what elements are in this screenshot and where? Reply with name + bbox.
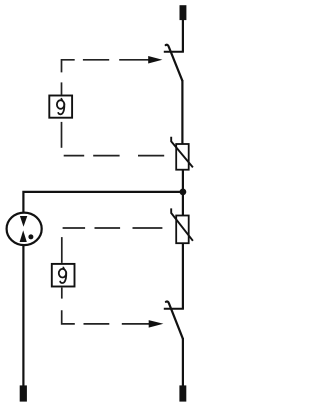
- dash: upper run 1: [63, 227, 86, 229]
- GDT gas-filled dot: [28, 234, 33, 239]
- main horizontal wire to left branch: [23, 192, 183, 213]
- switch S1 moving blade with hooked tip: [166, 45, 183, 81]
- wire: RV1 to junction node: [182, 170, 184, 216]
- terminal X2 (bottom right): [179, 385, 186, 401]
- gas discharge tube F1 envelope: [7, 213, 42, 246]
- switch S2 fixed contact arm: [164, 308, 184, 310]
- wire: GDT to terminal X3: [22, 245, 24, 386]
- dash: toward S2: [84, 323, 110, 325]
- GDT electrode lower (triangle up): [20, 230, 27, 242]
- varistor RV2 diagonal with tick: [171, 208, 193, 240]
- wire: RV2 to switch S2: [182, 243, 184, 309]
- dash: joining S1 arrow: [119, 59, 148, 61]
- dash: lower run 3 to RV1: [138, 155, 164, 157]
- dash: B2 top: [61, 237, 63, 263]
- actuator arrowhead S1: [148, 56, 162, 64]
- dash: B2 bottom: [61, 288, 63, 299]
- varistor RV2 body: [176, 216, 189, 244]
- dash: lower run 1: [64, 155, 84, 157]
- theta glyph B1: [57, 99, 64, 115]
- junction node dot: [180, 189, 187, 196]
- temperature monitor box B2: [52, 264, 75, 287]
- wire: S1 blade to varistor RV1: [181, 80, 183, 144]
- dash: corner bottom-left (bent): [62, 310, 75, 324]
- varistor RV1 diagonal with tick: [171, 137, 193, 168]
- dash: lower run 2: [93, 155, 119, 157]
- dash: joining S2 arrow: [122, 323, 149, 325]
- dashed control link B2 to S2: [62, 288, 149, 324]
- terminal X3 (bottom left): [20, 385, 27, 401]
- wire: X1 down to switch S1: [182, 20, 184, 52]
- wire: S2 blade to terminal X2: [182, 338, 184, 386]
- theta glyph B2: [59, 267, 66, 283]
- dash: corner top-left (bent): [62, 60, 75, 73]
- dash: B1 bottom: [61, 122, 63, 148]
- dashed control link B2 to RV2: [62, 228, 163, 263]
- dash: upper run 2: [95, 227, 121, 229]
- dash: toward S1: [83, 59, 109, 61]
- dash: B1 top: [61, 82, 63, 94]
- GDT electrode upper (triangle down): [20, 216, 27, 227]
- temperature monitor box B1: [49, 96, 72, 118]
- dashed control link B1 to RV1: [62, 122, 165, 156]
- varistor RV1 body: [176, 144, 189, 170]
- dashed control link B1 to S1 (drawn as measured dashes): [62, 60, 149, 95]
- terminal X1 (top right): [180, 5, 187, 20]
- switch S2 moving blade with hooked tip: [166, 301, 183, 338]
- dash: upper run 3 to RV2: [133, 227, 163, 229]
- actuator arrowhead S2: [149, 320, 164, 328]
- switch S1 fixed contact arm: [164, 51, 184, 53]
